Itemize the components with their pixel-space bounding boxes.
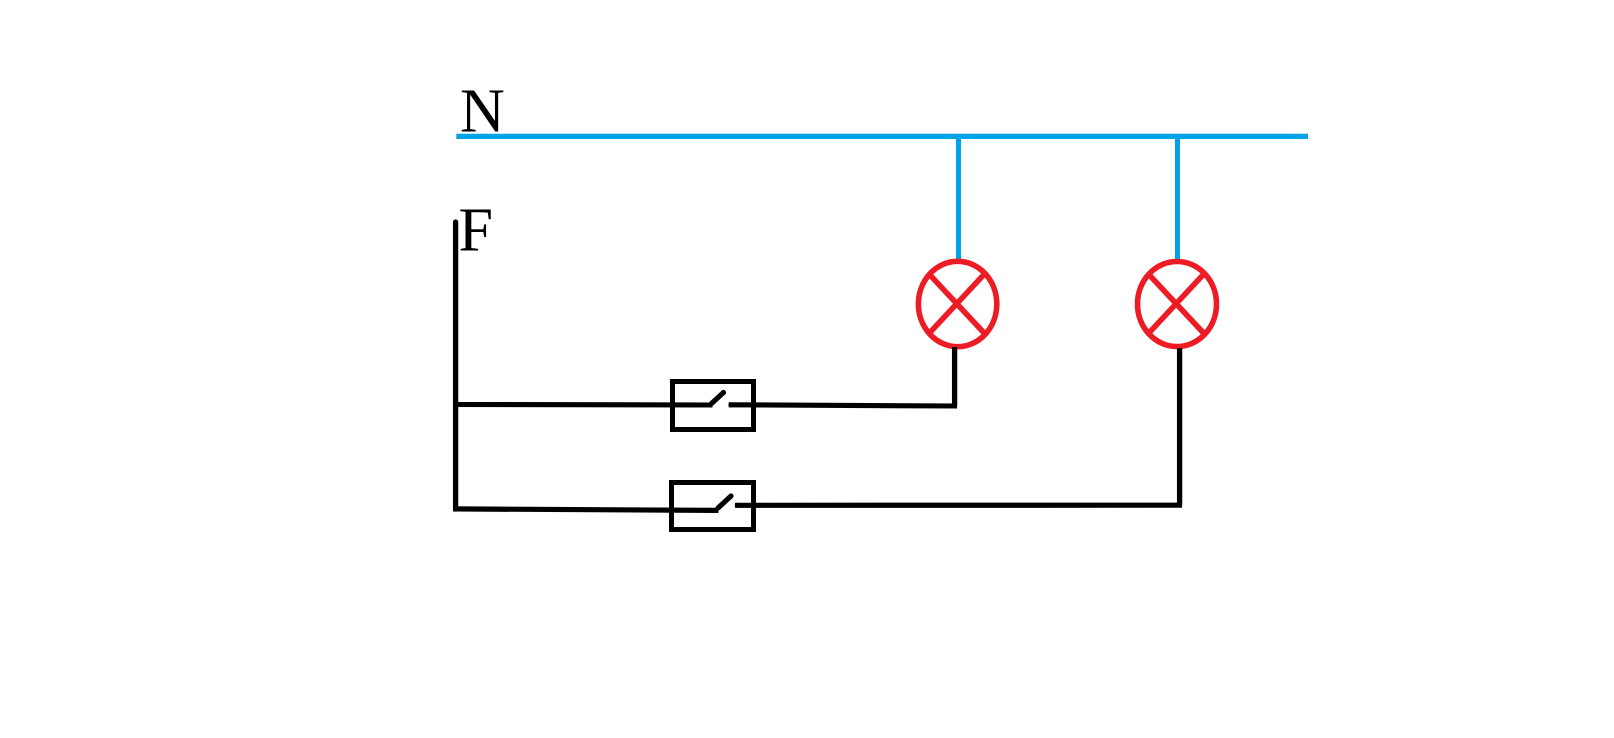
switch S2 lever [718, 496, 731, 508]
wire: neutral line N (blue horizontal) [456, 134, 1308, 139]
switch S1 box [673, 382, 754, 430]
wire: riser up to lamp L1 [952, 347, 957, 406]
wire: blue drop to lamp L1 [956, 136, 961, 260]
wire: branch 2 horizontal (F to switch S2) [453, 509, 719, 511]
wire: riser up to lamp L2 [1177, 348, 1182, 505]
switch S1 lever [712, 393, 724, 404]
wire: phase line F (black vertical) [453, 222, 458, 509]
lamp L2 [1138, 262, 1217, 347]
wire: branch 1 horizontal (F to switch S1) [453, 402, 713, 408]
lamp L1 [918, 261, 996, 346]
switch S2 box [672, 483, 754, 530]
svg-text:F: F [459, 197, 493, 265]
wire: blue drop to lamp L2 [1175, 136, 1180, 261]
wire: switch S1 output to lamp L1 riser [729, 405, 957, 406]
wire: switch S2 output to lamp L2 riser [735, 503, 1182, 508]
